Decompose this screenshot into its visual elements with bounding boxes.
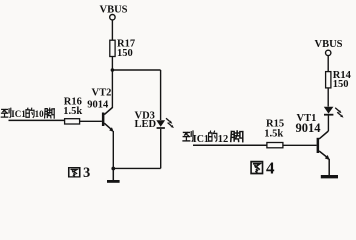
svg-text:VBUS: VBUS	[100, 4, 128, 15]
svg-text:LED: LED	[135, 119, 157, 130]
svg-text:1.5k: 1.5k	[264, 128, 283, 139]
svg-text:IC1: IC1	[193, 134, 209, 145]
svg-text:VT2: VT2	[92, 88, 112, 99]
svg-text:12: 12	[218, 134, 229, 145]
svg-text:150: 150	[117, 48, 133, 59]
svg-text:IC1: IC1	[11, 109, 26, 119]
svg-text:VBUS: VBUS	[315, 39, 343, 50]
svg-text:9014: 9014	[87, 99, 109, 110]
svg-text:4: 4	[266, 159, 275, 178]
svg-text:9014: 9014	[296, 121, 322, 135]
svg-text:1.5k: 1.5k	[63, 106, 82, 117]
svg-text:10: 10	[35, 109, 45, 119]
svg-text:150: 150	[333, 79, 349, 90]
svg-text:3: 3	[83, 165, 90, 181]
